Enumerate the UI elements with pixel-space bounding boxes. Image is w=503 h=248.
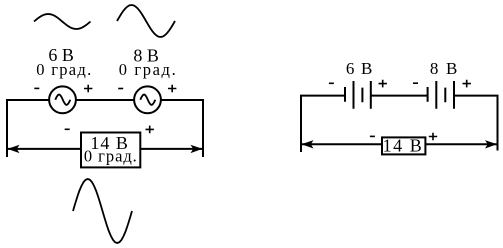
svg-text:6 В: 6 В	[346, 59, 373, 78]
svg-text:0 град.: 0 град.	[84, 147, 137, 166]
svg-text:0 град.: 0 град.	[119, 60, 176, 79]
svg-text:0 град.: 0 град.	[36, 60, 91, 79]
svg-text:8 В: 8 В	[430, 59, 458, 78]
